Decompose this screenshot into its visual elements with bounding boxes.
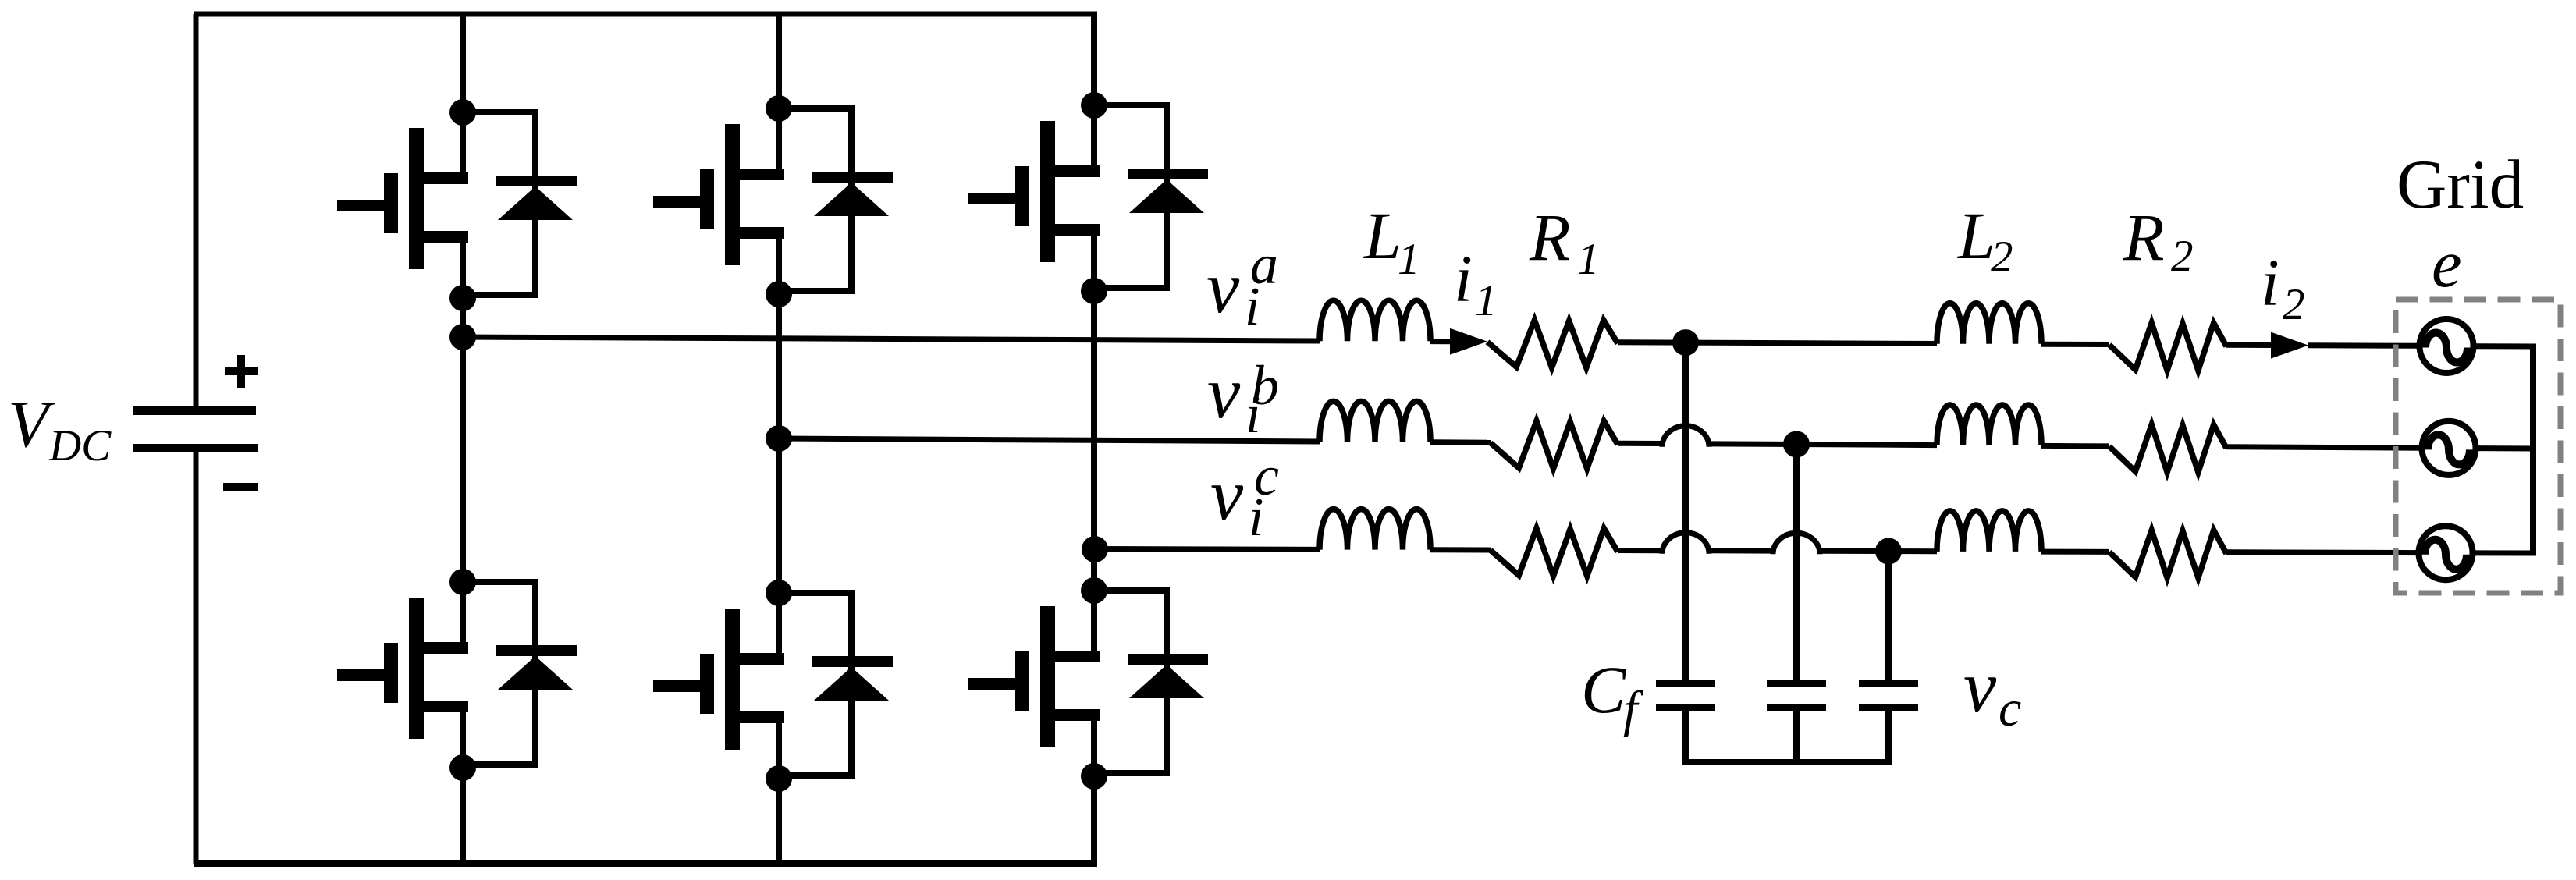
wire leg C top bbox=[1091, 14, 1097, 106]
junction dot: Q1 source bbox=[449, 285, 476, 311]
wire leg C bottom bbox=[1091, 775, 1097, 864]
wire phase-b R2 to grid source bbox=[2226, 447, 2422, 449]
wire Cf (phase a) lower branch bbox=[1682, 711, 1689, 762]
capacitor Cf (phase a) bbox=[1656, 680, 1715, 711]
wire phase-a L2 to R2 bbox=[2041, 342, 2109, 347]
label vib (phase b inverter voltage) bbox=[1207, 351, 1279, 445]
junction dot: Q1 drain bbox=[449, 99, 476, 126]
junction dot: node phase-b filter-cap tap bbox=[1783, 431, 1810, 458]
wire phase-a to grid source bbox=[2308, 342, 2420, 349]
wire phase-a node to L2 bbox=[1686, 342, 1937, 343]
junction dot: Q2 source bbox=[449, 754, 476, 781]
transistor Q6 (N-MOSFET) bbox=[968, 591, 1100, 776]
junction dot: Q6 source bbox=[1081, 763, 1107, 790]
label i1 bbox=[1454, 241, 1498, 325]
wire Cf (phase c) upper branch bbox=[1885, 552, 1892, 681]
svg-text:2: 2 bbox=[2283, 280, 2305, 329]
dashed grid boundary box bbox=[2396, 300, 2560, 593]
current arrow i1 bbox=[1450, 328, 1487, 355]
diode D1 (antiparallel) bbox=[463, 109, 577, 298]
label vc bbox=[1963, 645, 2021, 737]
wire phase-a L1 to i1 arrow bbox=[1430, 339, 1453, 344]
svg-text:1: 1 bbox=[1398, 235, 1420, 284]
label vic (phase c inverter voltage) bbox=[1210, 445, 1279, 548]
wire phase-c L2 to R2 bbox=[2041, 549, 2109, 555]
wire leg B middle bbox=[776, 293, 782, 594]
junction dot: Q3 drain bbox=[766, 95, 792, 122]
svg-text:c: c bbox=[1999, 680, 2021, 737]
wire leg C middle bbox=[1091, 290, 1097, 591]
wire DC positive top rail bbox=[194, 12, 1097, 17]
svg-text:f: f bbox=[1623, 681, 1643, 738]
resistor R1 (phase a) bbox=[1487, 320, 1618, 367]
label R2 bbox=[2123, 200, 2194, 281]
svg-text:i: i bbox=[1245, 385, 1260, 445]
wire left DC branch lower segment bbox=[194, 452, 199, 864]
wire phase-a source to grid bus bbox=[2473, 343, 2536, 349]
capacitor Cf (phase c) bbox=[1859, 680, 1918, 711]
junction dot: Q2 drain bbox=[449, 569, 476, 595]
label L2 bbox=[1956, 198, 2013, 282]
svg-text:v: v bbox=[1963, 645, 1997, 728]
junction dot: Q4 drain bbox=[766, 580, 792, 606]
svg-text:v: v bbox=[1207, 351, 1241, 434]
capacitor Cf (phase b) bbox=[1767, 680, 1826, 711]
svg-text:V: V bbox=[8, 386, 55, 461]
svg-text:Grid: Grid bbox=[2397, 147, 2524, 223]
wire phase-c R1 to first hop bbox=[1618, 548, 1662, 553]
transistor Q4 (N-MOSFET) bbox=[653, 593, 784, 779]
svg-text:1: 1 bbox=[1577, 235, 1600, 284]
junction dot: Q5 drain bbox=[1081, 92, 1107, 119]
svg-text:i: i bbox=[1249, 488, 1263, 548]
wire phase-b L2 to R2 bbox=[2041, 443, 2109, 449]
inductor L2 (phase a) bbox=[1937, 303, 2041, 344]
wire crossover hop at x=2302 bbox=[1773, 533, 1820, 554]
svg-text:2: 2 bbox=[1991, 232, 2013, 282]
wire DC negative bottom rail bbox=[194, 860, 1097, 867]
junction dot: Q6 drain bbox=[1081, 577, 1107, 604]
wire phase-c between hops bbox=[1709, 548, 1773, 553]
junction dot: node phase-c filter-cap tap bbox=[1875, 538, 1902, 565]
junction dot: node phase-c leg tap bbox=[1082, 536, 1108, 562]
junction dot: Q5 source bbox=[1081, 278, 1107, 304]
wire leg B top bbox=[776, 14, 782, 109]
diode D4 (antiparallel) bbox=[779, 590, 893, 779]
transistor Q2 (N-MOSFET) bbox=[337, 582, 468, 768]
resistor R1 (phase c) bbox=[1491, 528, 1618, 576]
svg-text:1: 1 bbox=[1475, 276, 1498, 325]
junction dot: Q4 source bbox=[766, 765, 792, 792]
svg-text:L: L bbox=[1956, 198, 1995, 273]
svg-text:e: e bbox=[2432, 225, 2462, 301]
wire phase-b source to grid bus bbox=[2475, 445, 2536, 451]
svg-text:C: C bbox=[1581, 652, 1627, 727]
junction dot: node phase-a filter-cap tap bbox=[1672, 329, 1699, 356]
wire phase-b L1 to R1 bbox=[1430, 439, 1491, 445]
inductor L1 (phase a) bbox=[1320, 300, 1430, 341]
resistor R2 (phase a) bbox=[2109, 323, 2226, 371]
resistor R1 (phase b) bbox=[1491, 421, 1618, 469]
label Cf bbox=[1581, 652, 1643, 738]
label via (phase a inverter voltage) bbox=[1206, 233, 1278, 337]
svg-text:R: R bbox=[1529, 200, 1571, 275]
diode D6 (antiparallel) bbox=[1094, 587, 1208, 776]
wire phase-c R2 to grid source bbox=[2226, 549, 2419, 555]
AC source ea (phase a) bbox=[2420, 319, 2474, 373]
svg-text:i: i bbox=[2261, 245, 2279, 320]
current arrow i2 bbox=[2271, 332, 2308, 359]
resistor R2 (phase c) bbox=[2109, 530, 2226, 578]
wire phase-a R2 to i2 arrow bbox=[2226, 342, 2272, 348]
wire left DC branch upper segment bbox=[194, 14, 199, 406]
diode D5 (antiparallel) bbox=[1094, 102, 1208, 291]
svg-text:i: i bbox=[1454, 241, 1473, 316]
wire phase-a leg to L1 bbox=[463, 337, 1320, 341]
wire phase-b R1 to hop bbox=[1618, 441, 1662, 446]
wire phase-c source to grid bus bbox=[2472, 550, 2536, 555]
polarity plus sign bbox=[225, 355, 258, 388]
wire phase-c L1 to R1 bbox=[1430, 547, 1491, 552]
inductor L1 (phase b) bbox=[1320, 401, 1430, 442]
inductor L2 (phase c) bbox=[1937, 511, 2041, 552]
junction dot: node phase-b leg tap bbox=[766, 425, 792, 452]
capacitor VDC (DC-link source plates) bbox=[133, 406, 258, 452]
wire grid neutral bus bbox=[2530, 346, 2536, 553]
svg-text:L: L bbox=[1363, 198, 1402, 273]
wire phase-c hop to Cf node bbox=[1820, 548, 1888, 554]
svg-text:R: R bbox=[2123, 200, 2165, 275]
wire leg A top bbox=[460, 14, 466, 113]
wire leg B bottom bbox=[776, 778, 782, 864]
wire leg A middle bbox=[460, 297, 466, 583]
junction dot: node phase-a leg tap bbox=[449, 324, 476, 350]
svg-text:v: v bbox=[1210, 453, 1244, 536]
wire Cf (phase b) upper branch bbox=[1793, 445, 1800, 681]
wire crossover hop at x=2160 bbox=[1662, 533, 1709, 554]
label L1 bbox=[1363, 198, 1420, 284]
transistor Q3 (N-MOSFET) bbox=[653, 108, 784, 294]
resistor R2 (phase b) bbox=[2109, 424, 2226, 472]
svg-text:2: 2 bbox=[2171, 232, 2194, 281]
wire phase-c node to L2 bbox=[1888, 548, 1937, 554]
AC source eb (phase b) bbox=[2422, 421, 2476, 475]
wire capacitor common bus bbox=[1682, 759, 1892, 765]
inductor L1 (phase c) bbox=[1320, 509, 1430, 550]
junction dot: Q3 source bbox=[766, 281, 792, 307]
transistor Q5 (N-MOSFET) bbox=[968, 105, 1100, 291]
wire Cf (phase a) upper branch bbox=[1682, 342, 1689, 680]
svg-text:i: i bbox=[1245, 277, 1260, 337]
label R1 bbox=[1529, 200, 1600, 284]
transistor Q1 (N-MOSFET) bbox=[337, 112, 468, 298]
wire leg A bottom bbox=[460, 767, 466, 864]
AC source ec (phase c) bbox=[2419, 526, 2473, 580]
wire phase-c leg to L1 bbox=[1095, 546, 1320, 552]
diode D2 (antiparallel) bbox=[463, 579, 577, 768]
wire phase-b hop to Cf node bbox=[1709, 441, 1796, 447]
wire Cf (phase c) lower branch bbox=[1885, 711, 1892, 762]
label i2 bbox=[2261, 245, 2305, 329]
wire Cf (phase b) lower branch bbox=[1793, 711, 1800, 762]
wire phase-b leg to L1 bbox=[779, 438, 1320, 442]
wire crossover hop at x=2160 bbox=[1662, 426, 1709, 447]
wire phase-a R1 to Cf node bbox=[1618, 339, 1686, 345]
inductor L2 (phase b) bbox=[1937, 405, 2041, 445]
polarity minus sign bbox=[223, 483, 258, 491]
wire phase-b node to L2 bbox=[1796, 445, 1937, 445]
svg-text:v: v bbox=[1206, 246, 1240, 328]
svg-text:DC: DC bbox=[48, 421, 112, 470]
diode D3 (antiparallel) bbox=[779, 105, 893, 294]
